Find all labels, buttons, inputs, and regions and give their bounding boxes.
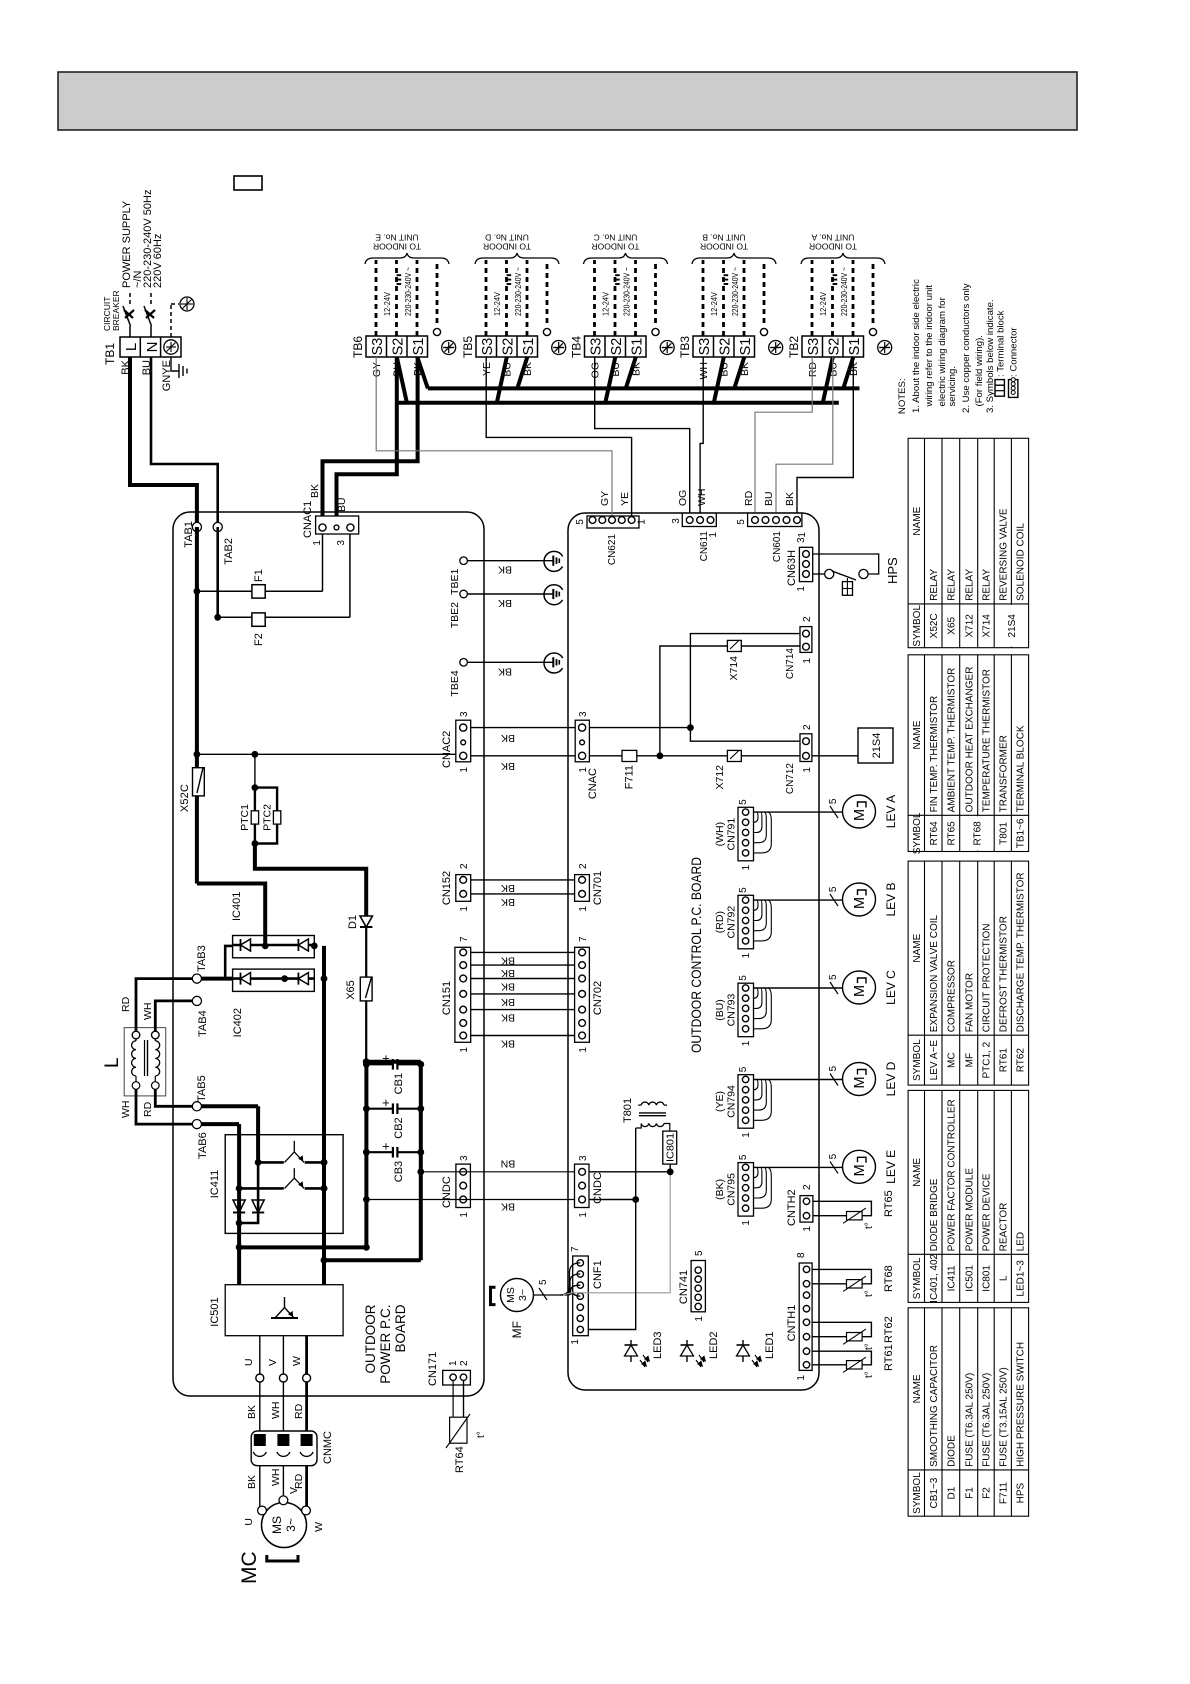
svg-text:RD: RD bbox=[293, 1403, 305, 1419]
connector symbol (notes) bbox=[1009, 380, 1018, 398]
svg-text:BK: BK bbox=[498, 564, 512, 576]
svg-text:1: 1 bbox=[578, 906, 589, 912]
svg-text:TERMINAL BLOCK: TERMINAL BLOCK bbox=[1016, 725, 1027, 812]
power factor controller IC411 bbox=[225, 1135, 343, 1234]
cable slash 5 (LEV D) bbox=[830, 1074, 838, 1086]
junction T801/BK bbox=[632, 1196, 639, 1203]
wire label BK (180) bbox=[501, 1012, 515, 1024]
connector CN621 bbox=[587, 516, 639, 528]
svg-text:F711: F711 bbox=[624, 765, 636, 789]
svg-text:S1: S1 bbox=[411, 338, 427, 356]
HPS actuator box bbox=[842, 582, 852, 596]
connector CN171 bbox=[443, 1370, 471, 1385]
svg-text:OG: OG bbox=[677, 490, 689, 506]
wire TAB3 to IC402 bbox=[197, 977, 233, 981]
bundle curves CN791 bbox=[754, 812, 772, 853]
svg-text:WH: WH bbox=[120, 1101, 132, 1119]
svg-text:NAME: NAME bbox=[912, 1374, 923, 1403]
connector CN714 bbox=[800, 627, 812, 653]
terminal block TB4 bbox=[585, 336, 647, 357]
slant TB3 S1 to bus bbox=[734, 357, 744, 388]
svg-text:2: 2 bbox=[459, 863, 470, 869]
wire BK TB2-S1 to CN601 bbox=[797, 357, 853, 516]
svg-text:t°: t° bbox=[864, 1371, 875, 1378]
svg-text:CB3: CB3 bbox=[393, 1161, 405, 1182]
indicator LED1 bbox=[742, 1340, 744, 1362]
svg-text:S3: S3 bbox=[480, 338, 496, 356]
svg-text:CIRCUIT PROTECTION: CIRCUIT PROTECTION bbox=[982, 923, 993, 1032]
svg-text:TAB3: TAB3 bbox=[196, 945, 208, 972]
connector CN702 bbox=[575, 947, 590, 1042]
svg-text:1: 1 bbox=[741, 952, 752, 958]
svg-text:TRANSFORMER: TRANSFORMER bbox=[998, 735, 1009, 812]
svg-text:1: 1 bbox=[694, 1316, 705, 1322]
svg-text:TEMPERATURE THERMISTOR: TEMPERATURE THERMISTOR bbox=[982, 669, 993, 812]
svg-text:CN741: CN741 bbox=[678, 1270, 690, 1304]
svg-text:RD: RD bbox=[120, 996, 132, 1012]
transformer T801 bbox=[636, 1124, 642, 1129]
wire TAB4 to reactor (WH) bbox=[155, 1001, 192, 1031]
dc marker TB5 bbox=[507, 283, 512, 285]
terminal TAB4 bbox=[192, 996, 201, 1005]
svg-text:L: L bbox=[102, 1057, 123, 1068]
wire PTC to D1/X65 rail bbox=[255, 844, 366, 917]
terminal TAB1 bbox=[192, 522, 201, 531]
svg-text:BK: BK bbox=[501, 996, 515, 1008]
svg-text:REACTOR: REACTOR bbox=[998, 1203, 1009, 1252]
svg-text:HPS: HPS bbox=[1016, 1482, 1027, 1503]
relay contact X712 bbox=[727, 750, 741, 761]
wire CNAC2 pin3 to CNAC pin3 bbox=[471, 727, 576, 729]
svg-text:(RD): (RD) bbox=[714, 911, 726, 933]
svg-text:NAME: NAME bbox=[912, 720, 923, 749]
junction IC411 outputs bbox=[321, 1159, 328, 1166]
svg-text:SMOOTHING CAPACITOR: SMOOTHING CAPACITOR bbox=[929, 1345, 940, 1467]
svg-text:SYMBOL: SYMBOL bbox=[912, 605, 923, 647]
wire CN151-CN702 1 bbox=[471, 1035, 575, 1037]
svg-text:S1: S1 bbox=[630, 338, 646, 356]
svg-text:BK: BK bbox=[246, 1475, 258, 1489]
svg-text:M: M bbox=[852, 985, 868, 997]
IC411 igbt a bbox=[258, 1161, 284, 1164]
terminal block TB6 bbox=[366, 336, 428, 357]
wire GY TB6-S3 to CN621 bbox=[376, 357, 612, 516]
wire CN794 to LEV D bbox=[754, 1079, 843, 1081]
svg-text:TAB2: TAB2 bbox=[223, 538, 235, 565]
table relay bbox=[908, 438, 1029, 647]
svg-text:5: 5 bbox=[828, 974, 839, 980]
svg-text:WH: WH bbox=[698, 362, 710, 380]
svg-text:CN621: CN621 bbox=[607, 534, 618, 566]
diode bridge IC401 bbox=[233, 936, 315, 958]
wire TB1 L to TAB1 (BK) bbox=[130, 357, 197, 527]
svg-text:BK: BK bbox=[501, 896, 515, 908]
thermistor RT61 bbox=[812, 1364, 846, 1366]
svg-text:(BU): (BU) bbox=[714, 999, 726, 1021]
svg-text:TAB6: TAB6 bbox=[197, 1132, 209, 1159]
svg-text:IC411: IC411 bbox=[946, 1265, 957, 1291]
IC411 igbt b bbox=[239, 1187, 284, 1190]
svg-text:LEV D: LEV D bbox=[884, 1061, 898, 1096]
X714 branch wire bbox=[660, 646, 728, 756]
svg-text:SYMBOL: SYMBOL bbox=[912, 1472, 923, 1514]
svg-text:5: 5 bbox=[828, 886, 839, 892]
slant TB3 S2 to bus bbox=[714, 357, 724, 403]
small header box bbox=[234, 176, 262, 190]
svg-text:BK: BK bbox=[498, 597, 512, 609]
terminal TBE2 bbox=[460, 590, 468, 598]
svg-text:5: 5 bbox=[738, 799, 749, 805]
svg-text:CN714: CN714 bbox=[785, 648, 796, 680]
svg-text:DISCHARGE TEMP. THERMISTOR: DISCHARGE TEMP. THERMISTOR bbox=[1016, 872, 1027, 1032]
slant TB2 S1 to bus bbox=[843, 357, 853, 388]
svg-text:X52C: X52C bbox=[929, 613, 940, 638]
svg-text:CB1: CB1 bbox=[393, 1073, 405, 1094]
connector CN712 bbox=[800, 734, 812, 762]
svg-text:COMPRESSOR: COMPRESSOR bbox=[946, 960, 957, 1032]
svg-text:BK: BK bbox=[501, 1038, 515, 1050]
connector CNMC bbox=[251, 1431, 317, 1466]
wire label BK (180) bbox=[498, 564, 512, 576]
circuit breaker contact L bbox=[129, 326, 131, 337]
wire IC501 W bbox=[305, 1336, 308, 1374]
wire label BK (180) bbox=[501, 1038, 515, 1050]
svg-text:WH: WH bbox=[270, 1402, 282, 1420]
svg-text:220-230-240V ~: 220-230-240V ~ bbox=[731, 267, 740, 316]
svg-text:SYMBOL: SYMBOL bbox=[912, 1039, 923, 1081]
svg-text:POWER DEVICE: POWER DEVICE bbox=[982, 1173, 993, 1251]
S1 chain bus bbox=[428, 386, 860, 390]
svg-text:1: 1 bbox=[741, 1040, 752, 1046]
wire reactor to TAB5 (RD) bbox=[155, 1089, 192, 1106]
slant TB4 S1 to bus bbox=[626, 357, 636, 388]
svg-text:CN63H: CN63H bbox=[786, 550, 798, 586]
svg-text:IC401: IC401 bbox=[231, 892, 243, 921]
svg-text:12-24V: 12-24V bbox=[819, 291, 828, 316]
svg-text:TB3: TB3 bbox=[678, 336, 692, 358]
terminal TAB3 bbox=[192, 974, 201, 983]
chassis earth symbol TBE1 bbox=[544, 551, 564, 571]
svg-text:1: 1 bbox=[797, 532, 808, 538]
svg-text:IC401, 402: IC401, 402 bbox=[929, 1253, 940, 1302]
svg-text:X714: X714 bbox=[728, 656, 740, 681]
svg-text:1: 1 bbox=[708, 532, 719, 538]
svg-text:YE: YE bbox=[481, 362, 493, 376]
svg-text:CN794: CN794 bbox=[726, 1085, 738, 1118]
svg-text:TBE1: TBE1 bbox=[449, 569, 461, 595]
svg-text:FUSE (T3.15AL 250V): FUSE (T3.15AL 250V) bbox=[998, 1367, 1009, 1467]
svg-text:21S4: 21S4 bbox=[1007, 614, 1018, 638]
svg-text:SOLENOID COIL: SOLENOID COIL bbox=[1016, 523, 1027, 601]
svg-text:M: M bbox=[852, 1164, 868, 1176]
svg-text:BK: BK bbox=[501, 882, 515, 894]
wire label BK (180) bbox=[501, 954, 515, 966]
svg-text:5: 5 bbox=[828, 1066, 839, 1072]
terminal block TB1 bbox=[120, 337, 181, 357]
svg-text:X712: X712 bbox=[964, 614, 975, 638]
expansion valve motor LEV E bbox=[843, 1150, 876, 1183]
thermistor RT65 bbox=[813, 1215, 847, 1217]
wire IC411 to IC501 a bbox=[237, 1188, 241, 1223]
svg-text:1: 1 bbox=[578, 1212, 589, 1218]
wire CN793 to LEV C bbox=[754, 987, 843, 989]
negative bus to lower cap rail bbox=[324, 1258, 421, 1262]
connector CN795 bbox=[738, 1163, 754, 1217]
wire CN152-CN701 a bbox=[471, 879, 575, 881]
svg-text:F2: F2 bbox=[253, 633, 265, 646]
wires to CNMC bbox=[259, 1382, 261, 1431]
thermistor RT62 bbox=[812, 1336, 846, 1338]
positive link IC401-IC402 bbox=[225, 946, 232, 979]
svg-text:wiring refer to the indoor uni: wiring refer to the indoor unit bbox=[924, 285, 935, 408]
junction F1 node bbox=[194, 588, 201, 595]
svg-text:SYMBOL: SYMBOL bbox=[912, 1257, 923, 1299]
chassis earth symbol TBE4 bbox=[544, 653, 564, 673]
svg-text:5: 5 bbox=[538, 1279, 549, 1285]
open terminal circle TB4 bbox=[652, 328, 659, 335]
svg-text:IC801: IC801 bbox=[666, 1133, 677, 1162]
terminal block symbol (notes) bbox=[995, 380, 1004, 397]
connector CN701 bbox=[575, 875, 590, 902]
wire IC501 U bbox=[259, 1336, 261, 1374]
svg-text:(BK): (BK) bbox=[714, 1179, 726, 1200]
terminal W circle bbox=[303, 1374, 311, 1382]
svg-text:S1: S1 bbox=[738, 338, 754, 356]
chassis ground below TB1 earth bbox=[171, 357, 179, 371]
slant TB5 S2 to bus bbox=[497, 357, 507, 403]
open terminal circle TB5 bbox=[543, 328, 550, 335]
svg-text:SYMBOL: SYMBOL bbox=[912, 812, 923, 854]
svg-text:+: + bbox=[378, 1055, 393, 1063]
junction X52C node bbox=[194, 751, 201, 758]
svg-text:LEV A~E: LEV A~E bbox=[929, 1040, 940, 1081]
svg-text:RT62: RT62 bbox=[1016, 1048, 1027, 1073]
wire label TO INDOOR (180) bbox=[483, 242, 531, 252]
svg-text:IC501: IC501 bbox=[964, 1265, 975, 1292]
S1 bus (to CNAC1 pin1) bbox=[323, 357, 418, 516]
svg-text:T801: T801 bbox=[622, 1098, 634, 1123]
table fuse bbox=[908, 1308, 1029, 1516]
svg-text:L: L bbox=[123, 343, 140, 351]
svg-text:POWER MODULE: POWER MODULE bbox=[964, 1168, 975, 1252]
bundle curves CN794 bbox=[754, 1080, 772, 1121]
wire TBE4 to chassis bbox=[467, 661, 553, 663]
svg-text:220-230-240V ~: 220-230-240V ~ bbox=[514, 267, 523, 316]
connector CN63H bbox=[799, 547, 812, 581]
circuit protector PTC1 bbox=[254, 788, 256, 844]
wire CN151-CN702 3 bbox=[471, 1009, 575, 1011]
svg-text:RT64: RT64 bbox=[454, 1446, 466, 1473]
svg-text:U: U bbox=[243, 1358, 255, 1366]
wire label TO INDOOR (180) bbox=[809, 242, 857, 252]
terminal U circle bbox=[256, 1374, 264, 1382]
wire TBE1 to chassis bbox=[467, 560, 553, 562]
svg-text:MS: MS bbox=[505, 1287, 517, 1303]
connector CN611 bbox=[682, 513, 716, 526]
expansion valve motor LEV C bbox=[843, 971, 876, 1004]
power device IC801 bbox=[663, 1131, 677, 1164]
wire TAB2 to F2 junction bbox=[216, 527, 219, 617]
svg-text:POWER FACTOR CONTROLLER: POWER FACTOR CONTROLLER bbox=[946, 1099, 957, 1251]
svg-text:RT61: RT61 bbox=[998, 1048, 1009, 1073]
reactor L bbox=[124, 1028, 166, 1096]
connector CN741 bbox=[691, 1261, 705, 1312]
svg-text:RT62: RT62 bbox=[883, 1316, 895, 1343]
svg-text:TBE2: TBE2 bbox=[449, 602, 461, 628]
junction IC401 input bbox=[262, 943, 269, 950]
svg-text:7: 7 bbox=[578, 936, 589, 942]
bundle curves CN795 bbox=[754, 1167, 772, 1208]
svg-text:PTC1: PTC1 bbox=[239, 804, 251, 831]
svg-text:1: 1 bbox=[741, 1220, 752, 1226]
svg-text:NAME: NAME bbox=[912, 1158, 923, 1187]
svg-text:CN601: CN601 bbox=[772, 531, 783, 563]
svg-text:: Connector: : Connector bbox=[1009, 327, 1020, 377]
connector CNDC power bbox=[456, 1164, 471, 1207]
wire CN151-CN702 4 bbox=[471, 993, 575, 995]
svg-text:DIODE BRIDGE: DIODE BRIDGE bbox=[929, 1178, 940, 1251]
expansion valve motor LEV D bbox=[843, 1063, 876, 1096]
open terminal circle TB3 bbox=[760, 328, 767, 335]
svg-text:TB6: TB6 bbox=[351, 336, 365, 358]
terminal V circle bbox=[279, 1374, 287, 1382]
svg-text:GY: GY bbox=[371, 362, 383, 377]
svg-text:CN152: CN152 bbox=[441, 871, 453, 905]
svg-text:8: 8 bbox=[796, 1252, 807, 1258]
IC411 boost diode a bbox=[233, 1200, 245, 1213]
svg-text:W: W bbox=[313, 1522, 325, 1532]
svg-text:t°: t° bbox=[864, 1290, 875, 1297]
brace TB5 bbox=[475, 253, 559, 264]
top rail to IC501 side bbox=[239, 1245, 366, 1249]
compressor motor MC bbox=[262, 1503, 307, 1548]
svg-text:CN701: CN701 bbox=[592, 871, 604, 905]
svg-text:7: 7 bbox=[459, 936, 470, 942]
diode D1 bbox=[365, 916, 367, 931]
terminal TAB2 bbox=[213, 522, 222, 531]
svg-text:WH: WH bbox=[142, 1003, 154, 1021]
svg-text:BK: BK bbox=[784, 492, 796, 506]
svg-text:W: W bbox=[291, 1356, 303, 1366]
svg-text:D1: D1 bbox=[946, 1486, 957, 1499]
svg-text:CN791: CN791 bbox=[726, 818, 738, 851]
indicator LED3 bbox=[630, 1340, 632, 1362]
wire label BN (180) bbox=[501, 1158, 516, 1170]
svg-text:FAN MOTOR: FAN MOTOR bbox=[964, 973, 975, 1032]
capacitor CB1 bbox=[363, 1061, 370, 1068]
svg-text:TB1~6: TB1~6 bbox=[1016, 818, 1027, 848]
thermistor RT64 bbox=[452, 1381, 454, 1418]
cable slash 5 (LEV C) bbox=[830, 982, 838, 994]
capacitor CB3 bbox=[363, 1149, 370, 1156]
ptc branch node top bbox=[252, 784, 259, 791]
svg-text:12-24V: 12-24V bbox=[493, 291, 502, 316]
svg-text:DEFROST THERMISTOR: DEFROST THERMISTOR bbox=[998, 916, 1009, 1032]
svg-text:CN171: CN171 bbox=[427, 1352, 439, 1386]
svg-text:FUSE (T6.3AL 250V): FUSE (T6.3AL 250V) bbox=[964, 1373, 975, 1467]
wire TAB6 to IC411 bbox=[197, 1122, 239, 1126]
svg-text:GY: GY bbox=[599, 491, 611, 506]
svg-text:220-230-240V ~: 220-230-240V ~ bbox=[840, 267, 849, 316]
svg-text:RT68: RT68 bbox=[973, 821, 984, 846]
svg-text:LEV A: LEV A bbox=[884, 795, 898, 828]
svg-text:TB4: TB4 bbox=[570, 336, 584, 358]
wire label BK (180) bbox=[501, 760, 515, 772]
field wiring dashed lines TB4 bbox=[593, 260, 596, 336]
svg-text:(YE): (YE) bbox=[714, 1091, 726, 1112]
svg-text:RELAY: RELAY bbox=[946, 569, 957, 601]
dc marker TB4 bbox=[615, 283, 620, 285]
wire label UNIT No. B (180) bbox=[702, 233, 746, 243]
wire label BK (180) bbox=[501, 896, 515, 908]
earth screw terminal TB6 bbox=[442, 341, 456, 355]
svg-text:S1: S1 bbox=[847, 338, 863, 356]
svg-text:F2: F2 bbox=[982, 1487, 993, 1499]
wire TAB1 to F1 junction bbox=[195, 527, 199, 591]
svg-text:: Terminal block: : Terminal block bbox=[996, 310, 1007, 377]
wire label BK (180) bbox=[501, 732, 515, 744]
svg-text:RELAY: RELAY bbox=[982, 569, 993, 601]
wire label TO INDOOR (180) bbox=[700, 242, 748, 252]
svg-text:UNIT No. E: UNIT No. E bbox=[375, 233, 419, 243]
svg-text:LEV B: LEV B bbox=[884, 882, 898, 916]
svg-text:F711: F711 bbox=[998, 1482, 1009, 1504]
wire label BK (180) bbox=[498, 597, 512, 609]
svg-text:PTC1, 2: PTC1, 2 bbox=[982, 1041, 993, 1078]
terminal TBE4 bbox=[460, 659, 468, 667]
wire diode b to junction bbox=[239, 1162, 258, 1223]
svg-text:5: 5 bbox=[736, 519, 747, 525]
wire BK rail bbox=[366, 1199, 574, 1201]
field wiring dashed lines TB5 bbox=[485, 260, 488, 336]
svg-text:S2: S2 bbox=[391, 338, 407, 356]
brace TB6 bbox=[365, 253, 449, 264]
connector CNAC1 bbox=[316, 516, 359, 534]
wire label UNIT No. A (180) bbox=[811, 233, 854, 243]
terminal TAB6 bbox=[192, 1120, 201, 1129]
wire CN151-CN702 5 bbox=[471, 978, 575, 980]
wire label BK (180) bbox=[501, 967, 515, 979]
svg-text:1: 1 bbox=[802, 1226, 813, 1232]
wire TAB1 bus to X52C bbox=[195, 591, 199, 754]
svg-text:MC: MC bbox=[946, 1052, 957, 1068]
wire TB1 N to TAB2 (BU) bbox=[151, 357, 218, 527]
svg-text:5: 5 bbox=[828, 1153, 839, 1159]
svg-text:3~: 3~ bbox=[517, 1289, 529, 1301]
cable slash 5 (LEV A) bbox=[830, 806, 838, 818]
svg-text:1: 1 bbox=[459, 906, 470, 912]
svg-text:TB5: TB5 bbox=[461, 336, 475, 358]
svg-text:1: 1 bbox=[796, 586, 807, 592]
IC411 boost diode b bbox=[252, 1200, 264, 1213]
svg-text:1: 1 bbox=[741, 1132, 752, 1138]
connector CN151 bbox=[455, 947, 471, 1042]
svg-text:S3: S3 bbox=[697, 338, 713, 356]
svg-text:BU: BU bbox=[336, 497, 348, 512]
svg-text:1: 1 bbox=[578, 767, 589, 773]
capacitor rail top bbox=[364, 1062, 368, 1248]
svg-text:5: 5 bbox=[828, 798, 839, 804]
svg-text:RT65: RT65 bbox=[883, 1190, 895, 1217]
svg-text:BN: BN bbox=[501, 1158, 516, 1170]
dc marker TB3 bbox=[724, 283, 729, 285]
svg-text:UNIT No. A: UNIT No. A bbox=[811, 233, 854, 243]
svg-text:IC801: IC801 bbox=[982, 1265, 993, 1292]
slant TB5 S1 to bus bbox=[517, 357, 527, 388]
TB1 earth terminal symbol bbox=[164, 340, 178, 354]
wire T801 to IC801 bbox=[664, 1124, 670, 1132]
wire CNF1 pin1 to T801 bbox=[588, 1200, 635, 1330]
